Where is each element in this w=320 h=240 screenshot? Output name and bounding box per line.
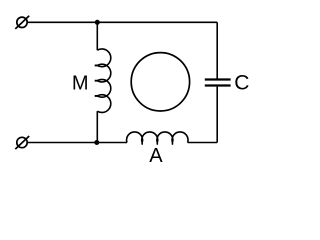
wire bottom left bbox=[27, 142, 127, 144]
inductor A bbox=[127, 132, 188, 144]
wire right top bbox=[216, 22, 218, 78]
capacitor C bbox=[205, 80, 231, 86]
svg-text:A: A bbox=[149, 145, 163, 167]
node junction bottom bbox=[94, 140, 99, 145]
terminal N (bottom neutral input) bbox=[15, 136, 29, 149]
terminal L (top phase input) bbox=[15, 16, 29, 29]
wire M branch bottom bbox=[96, 111, 98, 142]
motor rotor circle bbox=[131, 53, 189, 111]
wire M branch top bbox=[96, 22, 98, 50]
wire right bottom bbox=[216, 87, 218, 143]
svg-text:C: C bbox=[234, 71, 249, 94]
node junction top bbox=[95, 20, 100, 25]
wire bottom right bbox=[188, 142, 218, 144]
inductor M bbox=[97, 49, 110, 113]
svg-text:M: M bbox=[72, 72, 89, 94]
wire top bbox=[27, 21, 217, 23]
